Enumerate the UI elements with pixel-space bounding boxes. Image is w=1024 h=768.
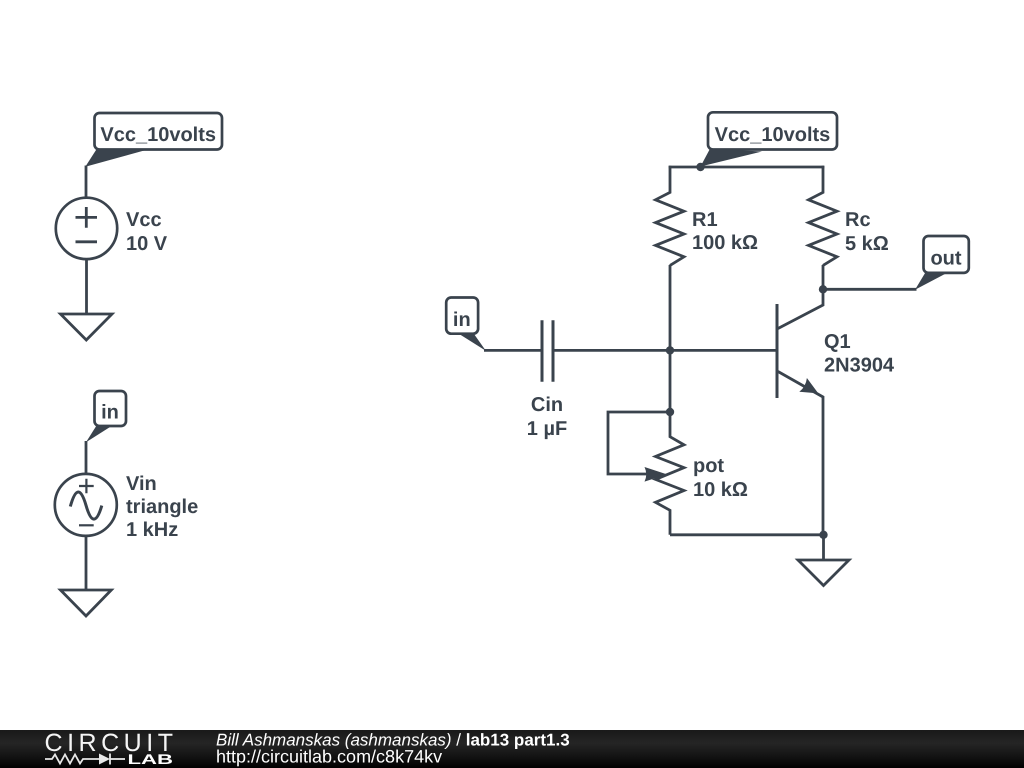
resistor Rc: [809, 166, 838, 266]
potentiometer pot: [656, 412, 685, 535]
svg-text:R1: R1: [692, 209, 718, 231]
transistor Q1 2N3904: [777, 289, 823, 535]
wire emitter node to ground: [822, 535, 825, 560]
label Q1 name/value: [824, 331, 895, 377]
junction on top rail: [696, 163, 704, 171]
svg-text:Vcc: Vcc: [126, 209, 162, 231]
wire from Vin source to ground: [85, 536, 88, 590]
net label Vcc_10volts (left): [95, 113, 223, 150]
svg-text:10 kΩ: 10 kΩ: [693, 479, 748, 501]
wire from Rc to collector node: [822, 265, 825, 289]
svg-text:pot: pot: [693, 455, 724, 477]
capacitor Cin: [542, 320, 553, 382]
wire from label to Vcc source: [85, 166, 88, 199]
label Cin name/value: [527, 394, 567, 440]
svg-text:10 V: 10 V: [126, 233, 168, 255]
net label in (right): [446, 298, 478, 334]
CircuitLab logo resistor-diode glyph: [45, 754, 125, 765]
svg-text:5 kΩ: 5 kΩ: [845, 233, 889, 255]
svg-text:1 µF: 1 µF: [527, 418, 567, 440]
wire bottom rail from pot to emitter node: [670, 533, 824, 536]
svg-text:Vcc_10volts: Vcc_10volts: [100, 124, 216, 146]
junction at collector node: [819, 285, 827, 293]
svg-text:http://circuitlab.com/c8k74kv: http://circuitlab.com/c8k74kv: [216, 747, 442, 767]
ground (below Vin): [61, 590, 112, 616]
label Vcc name/value: [126, 209, 168, 255]
callout pointer of right Vcc_10volts label: [701, 149, 763, 167]
svg-text:triangle: triangle: [126, 496, 198, 518]
wire feedback loop from pot top to wiper: [608, 412, 670, 474]
callout pointer of out label: [915, 272, 948, 290]
svg-text:in: in: [101, 402, 119, 424]
svg-text:Cin: Cin: [531, 394, 563, 416]
footer bar: [0, 730, 1024, 768]
wire from base node to pot top: [669, 350, 672, 412]
wire from Vcc source to ground: [85, 259, 88, 314]
voltage source Vin (sine symbol): [55, 474, 117, 536]
svg-text:Vin: Vin: [126, 473, 157, 495]
svg-text:in: in: [453, 309, 471, 331]
ground (right circuit): [798, 560, 849, 586]
ground (below Vcc): [61, 314, 113, 340]
label pot name/value: [693, 455, 748, 501]
label Rc name/value: [845, 209, 889, 255]
wire top rail from R1 to Rc: [669, 166, 825, 169]
net label in (left): [95, 391, 127, 426]
junction at base node: [666, 346, 674, 354]
wire from in label to Vin source: [85, 441, 88, 474]
resistor R1: [656, 166, 685, 266]
junction at pot top: [666, 408, 674, 416]
wire from Cin to base node: [553, 349, 670, 352]
svg-text:100 kΩ: 100 kΩ: [692, 232, 758, 254]
voltage source Vcc: [56, 198, 117, 259]
wiper arrow of pot: [645, 467, 668, 482]
net label out: [924, 236, 969, 273]
callout pointer of left in label: [86, 425, 112, 443]
net label Vcc_10volts (right): [708, 112, 837, 149]
label Vin name/value: [126, 473, 198, 541]
wire from R1 bottom to base node: [669, 265, 672, 350]
callout pointer of left Vcc_10volts label: [85, 149, 146, 167]
svg-text:out: out: [930, 248, 961, 270]
svg-text:1 kHz: 1 kHz: [126, 519, 178, 541]
svg-text:Q1: Q1: [824, 331, 851, 353]
svg-text:Rc: Rc: [845, 209, 871, 231]
svg-text:2N3904: 2N3904: [824, 355, 895, 377]
label R1 name/value: [692, 209, 758, 254]
junction at emitter node: [819, 531, 827, 539]
wire from in label to Cin: [484, 349, 542, 352]
svg-text:LAB: LAB: [128, 751, 174, 767]
svg-text:Vcc_10volts: Vcc_10volts: [715, 124, 831, 146]
callout pointer of right in label: [458, 333, 486, 351]
wire collector node to out label: [823, 288, 917, 291]
wire base node to transistor base: [670, 349, 777, 352]
